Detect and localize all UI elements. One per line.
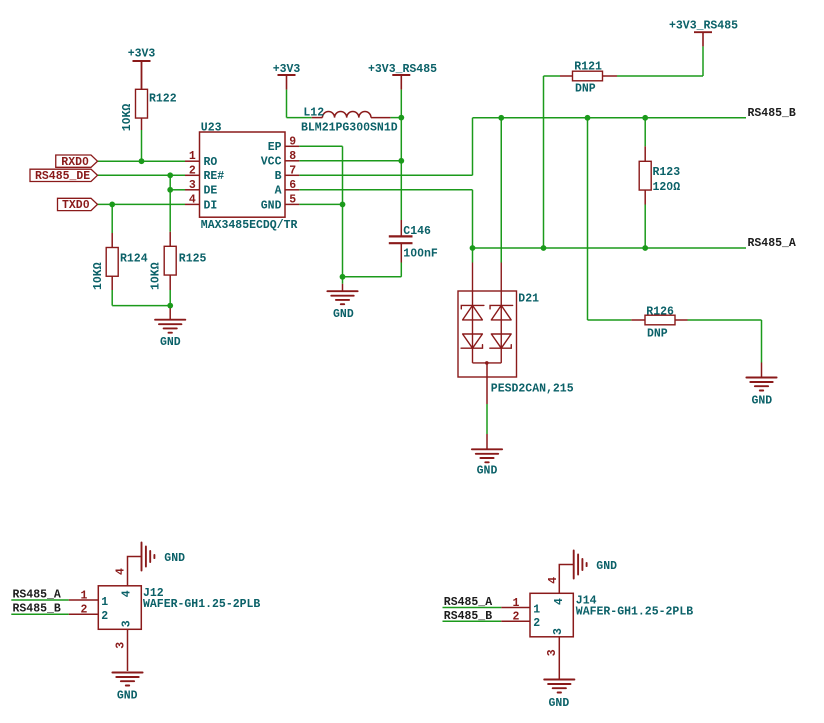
- svg-text:DNP: DNP: [647, 328, 668, 341]
- wire node to VCC junction: [400, 118, 402, 161]
- wire +3V3_RS485 down: [400, 90, 402, 118]
- wire A pin horizontal: [299, 189, 472, 191]
- ground at J14 pin4: [573, 551, 575, 579]
- wire +3V3 to L12 horizontal: [287, 117, 312, 119]
- junction RS485_DE/R125: [167, 172, 173, 178]
- power +3V3_RS485 (top middle): [392, 74, 410, 76]
- wire C146 bottom lead: [400, 244, 402, 263]
- svg-text:+3V3_RS485: +3V3_RS485: [669, 19, 738, 32]
- svg-text:GND: GND: [164, 552, 185, 565]
- wire TXD0 to R124 vertical: [111, 204, 113, 233]
- junction B/R126: [585, 115, 591, 121]
- svg-text:4: 4: [120, 590, 133, 597]
- wire RS485_B line: [473, 117, 747, 119]
- svg-text:3: 3: [552, 628, 565, 635]
- wire R121 left lead: [560, 75, 573, 77]
- svg-text:R121: R121: [574, 60, 602, 73]
- svg-text:R122: R122: [149, 93, 177, 106]
- junction TXD0/R124: [109, 202, 115, 208]
- wire R124 top lead: [111, 233, 113, 248]
- wire R125 bottom lead: [169, 276, 171, 291]
- wire R126 left horizontal: [588, 319, 632, 321]
- svg-text:1: 1: [513, 597, 520, 610]
- svg-text:RS485_B: RS485_B: [748, 107, 796, 120]
- svg-text:RE#: RE#: [204, 170, 225, 183]
- svg-text:DI: DI: [204, 199, 218, 212]
- svg-text:VCC: VCC: [261, 156, 282, 169]
- wire R121 left vertical: [543, 76, 545, 248]
- D21 left diode pair: [461, 305, 484, 309]
- wire GND stub under rail: [169, 306, 171, 320]
- wire J12 pin2: [11, 613, 69, 615]
- pin 9 EP stub: [285, 145, 299, 147]
- svg-text:3: 3: [120, 620, 133, 627]
- svg-text:1: 1: [189, 150, 196, 163]
- junction bottom rail: [167, 303, 173, 309]
- diode D21 PESD2CAN body box: [458, 291, 517, 377]
- wire R126 right lead: [675, 319, 688, 321]
- wire VCC horizontal: [299, 160, 401, 162]
- resistor R122: [136, 89, 148, 118]
- svg-text:GND: GND: [751, 394, 772, 407]
- svg-text:RS485_B: RS485_B: [444, 610, 492, 623]
- svg-text:GND: GND: [160, 336, 181, 349]
- wire R123 top: [644, 118, 646, 147]
- svg-text:10KΩ: 10KΩ: [150, 262, 163, 290]
- wire +3V3 to L12 vertical: [286, 90, 288, 118]
- wire R122 top lead: [141, 61, 143, 89]
- svg-text:2: 2: [513, 611, 520, 624]
- svg-text:2: 2: [189, 164, 196, 177]
- wire A vertical down: [472, 190, 474, 263]
- svg-text:1: 1: [533, 603, 540, 616]
- svg-text:GND: GND: [261, 199, 282, 212]
- J14 pin3 wire: [558, 637, 560, 679]
- svg-text:BLM21PG300SN1D: BLM21PG300SN1D: [301, 122, 398, 135]
- svg-text:WAFER-GH1.25-2PLB: WAFER-GH1.25-2PLB: [576, 605, 693, 618]
- svg-text:GND: GND: [117, 690, 138, 703]
- wire D21 tail green part: [486, 404, 488, 434]
- svg-text:9: 9: [289, 135, 296, 148]
- svg-text:+3V3: +3V3: [273, 63, 301, 76]
- D21 bottom join wire: [473, 362, 502, 364]
- power +3V3 (VCC): [278, 74, 296, 76]
- D21 center junction: [485, 361, 489, 365]
- junction A/R123: [642, 245, 648, 251]
- wire C146 top lead: [400, 220, 402, 236]
- svg-text:PESD2CAN,215: PESD2CAN,215: [491, 382, 574, 395]
- svg-text:1: 1: [101, 596, 108, 609]
- svg-text:L12: L12: [303, 107, 324, 120]
- wire GND pin5 horizontal: [299, 203, 342, 205]
- svg-text:RO: RO: [204, 156, 218, 169]
- svg-text:GND: GND: [477, 465, 498, 478]
- svg-text:RS485_A: RS485_A: [444, 596, 492, 609]
- power +3V3 (R122): [133, 60, 151, 62]
- wire C146 bottom: [400, 263, 402, 277]
- svg-text:3: 3: [114, 642, 127, 649]
- svg-text:4: 4: [547, 577, 560, 584]
- wire L12 to node: [390, 117, 401, 119]
- svg-text:R125: R125: [179, 252, 207, 265]
- pin 4 DI stub: [185, 203, 200, 205]
- junction B/R123: [642, 115, 648, 121]
- svg-text:R124: R124: [120, 252, 148, 265]
- resistor R124: [106, 248, 118, 277]
- wire D21 right pillar up to B: [500, 118, 502, 263]
- svg-text:RS485_A: RS485_A: [13, 588, 61, 601]
- junction VCC/C146: [398, 158, 404, 164]
- global label RXD0: [56, 155, 98, 167]
- capacitor C146: [389, 235, 413, 237]
- svg-text:D21: D21: [518, 292, 539, 305]
- ground at J12 pin3: [112, 672, 142, 674]
- wire J14 pin1: [443, 607, 502, 609]
- junction GND pin5: [340, 202, 346, 208]
- svg-text:100nF: 100nF: [403, 247, 438, 260]
- svg-text:2: 2: [533, 617, 540, 630]
- wire R126 right vertical: [761, 320, 763, 363]
- wire EP vertical: [342, 146, 344, 204]
- wire D21 tail red bottom: [486, 434, 488, 449]
- J14 pin1 stub: [501, 607, 530, 609]
- wire R123 bottom: [644, 205, 646, 249]
- wire R125 bottom vertical: [169, 290, 171, 306]
- wire GND stub under EP: [342, 284, 344, 291]
- wire R122 bottom lead: [141, 118, 143, 130]
- J12 pin1 stub: [69, 599, 99, 601]
- svg-text:6: 6: [289, 179, 296, 192]
- pin 1 RO stub: [185, 160, 200, 162]
- ground right of R126: [746, 377, 776, 379]
- svg-text:DE: DE: [204, 185, 218, 198]
- resistor R123: [639, 161, 651, 190]
- junction C146 GND: [340, 274, 346, 280]
- J12 pin4 wire: [128, 557, 141, 586]
- wire B pin horizontal: [299, 174, 472, 176]
- global label TXD0: [58, 198, 98, 210]
- wire D21 tail red top: [486, 363, 488, 404]
- wire C146 to GND rail: [343, 276, 402, 278]
- wire R126 left vertical: [587, 118, 589, 320]
- svg-text:4: 4: [189, 193, 196, 206]
- wire TXD0 horizontal: [98, 203, 186, 205]
- wire R123 bottom lead: [644, 190, 646, 205]
- junction B/D21: [498, 115, 504, 121]
- junction RXD0/R122: [139, 158, 145, 164]
- wire R124-R125 bottom rail: [112, 305, 170, 307]
- ground under U23/EP: [327, 290, 357, 292]
- junction A/R121: [541, 245, 547, 251]
- svg-text:5: 5: [289, 193, 296, 206]
- svg-text:4: 4: [553, 598, 566, 605]
- svg-text:EP: EP: [268, 141, 282, 154]
- wire RXD0 horizontal: [98, 160, 186, 162]
- D21 right diode pair: [490, 305, 513, 309]
- svg-text:RS485_DE: RS485_DE: [35, 170, 90, 183]
- svg-text:RS485_B: RS485_B: [13, 603, 61, 616]
- ground under R124/R125: [155, 319, 185, 321]
- ground at J12 pin4: [141, 543, 143, 571]
- J12 pin3 wire: [127, 629, 129, 671]
- wire R124 bottom lead: [111, 276, 113, 291]
- wire B vertical up: [472, 118, 474, 176]
- pin 7 B stub: [285, 174, 299, 176]
- wire R121 right horizontal: [617, 75, 703, 77]
- svg-text:7: 7: [289, 164, 296, 177]
- svg-text:3: 3: [189, 179, 196, 192]
- svg-text:B: B: [275, 170, 282, 183]
- svg-text:GND: GND: [596, 560, 617, 573]
- resistor R121: [573, 71, 603, 81]
- power +3V3_RS485 (top right): [694, 31, 712, 33]
- junction DE: [167, 187, 173, 193]
- wire RE#-DE-R125 vertical: [169, 175, 171, 232]
- svg-text:1: 1: [81, 589, 88, 602]
- wire R124 bottom vertical: [111, 290, 113, 306]
- inductor L12 ferrite bead: [322, 112, 371, 118]
- wire L12 right lead: [371, 117, 390, 119]
- wire J14 pin2: [443, 620, 502, 622]
- connector J12 body: [98, 586, 141, 630]
- ground under D21: [472, 448, 502, 450]
- svg-text:2: 2: [101, 610, 108, 623]
- wire RS485_A line: [473, 247, 747, 249]
- wire R121 right vertical: [702, 46, 704, 76]
- junction L12/+3V3_RS485: [398, 115, 404, 121]
- svg-text:R126: R126: [646, 305, 674, 318]
- svg-text:+3V3: +3V3: [128, 47, 156, 60]
- svg-text:RS485_A: RS485_A: [748, 237, 796, 250]
- svg-text:120Ω: 120Ω: [653, 181, 681, 194]
- wire R126 left lead: [631, 319, 645, 321]
- ground at J14 pin3: [544, 679, 574, 681]
- J12 pin2 stub: [69, 613, 99, 615]
- svg-text:RXD0: RXD0: [61, 156, 89, 169]
- svg-text:R123: R123: [653, 166, 681, 179]
- svg-text:C146: C146: [403, 225, 431, 238]
- wire R122 bottom to RXD0 net: [141, 130, 143, 161]
- zero glyph counter masks: [85, 160, 87, 162]
- J14 pin4 wire: [559, 565, 573, 594]
- pin 8 VCC stub: [285, 160, 299, 162]
- op-amp U23 body: [200, 132, 286, 217]
- connector J14 body: [530, 593, 573, 637]
- svg-text:10KΩ: 10KΩ: [92, 262, 105, 290]
- svg-text:10KΩ: 10KΩ: [121, 104, 134, 132]
- svg-text:A: A: [275, 185, 282, 198]
- wire R121 left horizontal: [544, 75, 561, 77]
- wire R125 top lead: [169, 232, 171, 247]
- J14 pin2 stub: [501, 620, 530, 622]
- wire GND down: [342, 204, 344, 283]
- pin 5 GND stub: [285, 203, 299, 205]
- pin 6 A stub: [285, 189, 299, 191]
- svg-text:DNP: DNP: [575, 82, 596, 95]
- svg-text:2: 2: [81, 604, 88, 617]
- wire RS485_DE horizontal: [98, 174, 186, 176]
- wire R121 right lead: [603, 75, 618, 77]
- wire R126 right horizontal: [688, 319, 762, 321]
- wire J12 pin1: [11, 599, 69, 601]
- svg-text:+3V3_RS485: +3V3_RS485: [368, 63, 437, 76]
- svg-text:GND: GND: [333, 308, 354, 321]
- svg-text:8: 8: [289, 150, 296, 163]
- pin 3 DE stub: [185, 189, 200, 191]
- svg-text:TXD0: TXD0: [62, 199, 90, 212]
- svg-text:WAFER-GH1.25-2PLB: WAFER-GH1.25-2PLB: [143, 598, 260, 611]
- wire DE stub: [170, 189, 185, 191]
- svg-text:GND: GND: [549, 697, 570, 710]
- wire EP horizontal: [299, 145, 342, 147]
- pin 2 RE# stub: [185, 174, 200, 176]
- svg-text:4: 4: [115, 568, 128, 575]
- svg-text:3: 3: [546, 649, 559, 656]
- resistor R125: [164, 246, 176, 275]
- wire GND stub R126: [761, 363, 763, 378]
- wire VCC to C146: [400, 161, 402, 220]
- svg-text:U23: U23: [201, 122, 222, 135]
- resistor R126: [645, 315, 675, 325]
- svg-text:MAX3485ECDQ/TR: MAX3485ECDQ/TR: [201, 219, 298, 232]
- junction A/D21: [470, 245, 476, 251]
- wire R123 top lead: [644, 146, 646, 161]
- wire L12 left lead: [312, 117, 323, 119]
- global label RS485_DE: [30, 169, 98, 181]
